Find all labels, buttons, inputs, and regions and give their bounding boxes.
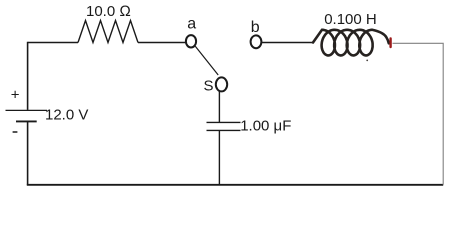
svg-text:12.0 V: 12.0 V — [45, 107, 88, 124]
svg-text:1.00 μF: 1.00 μF — [240, 117, 291, 134]
svg-text:b: b — [251, 19, 260, 36]
svg-text:S: S — [204, 78, 214, 95]
svg-text:+: + — [11, 87, 20, 104]
svg-text:a: a — [187, 16, 196, 33]
svg-text:0.100 H: 0.100 H — [324, 11, 377, 28]
svg-text:10.0 Ω: 10.0 Ω — [86, 3, 131, 20]
